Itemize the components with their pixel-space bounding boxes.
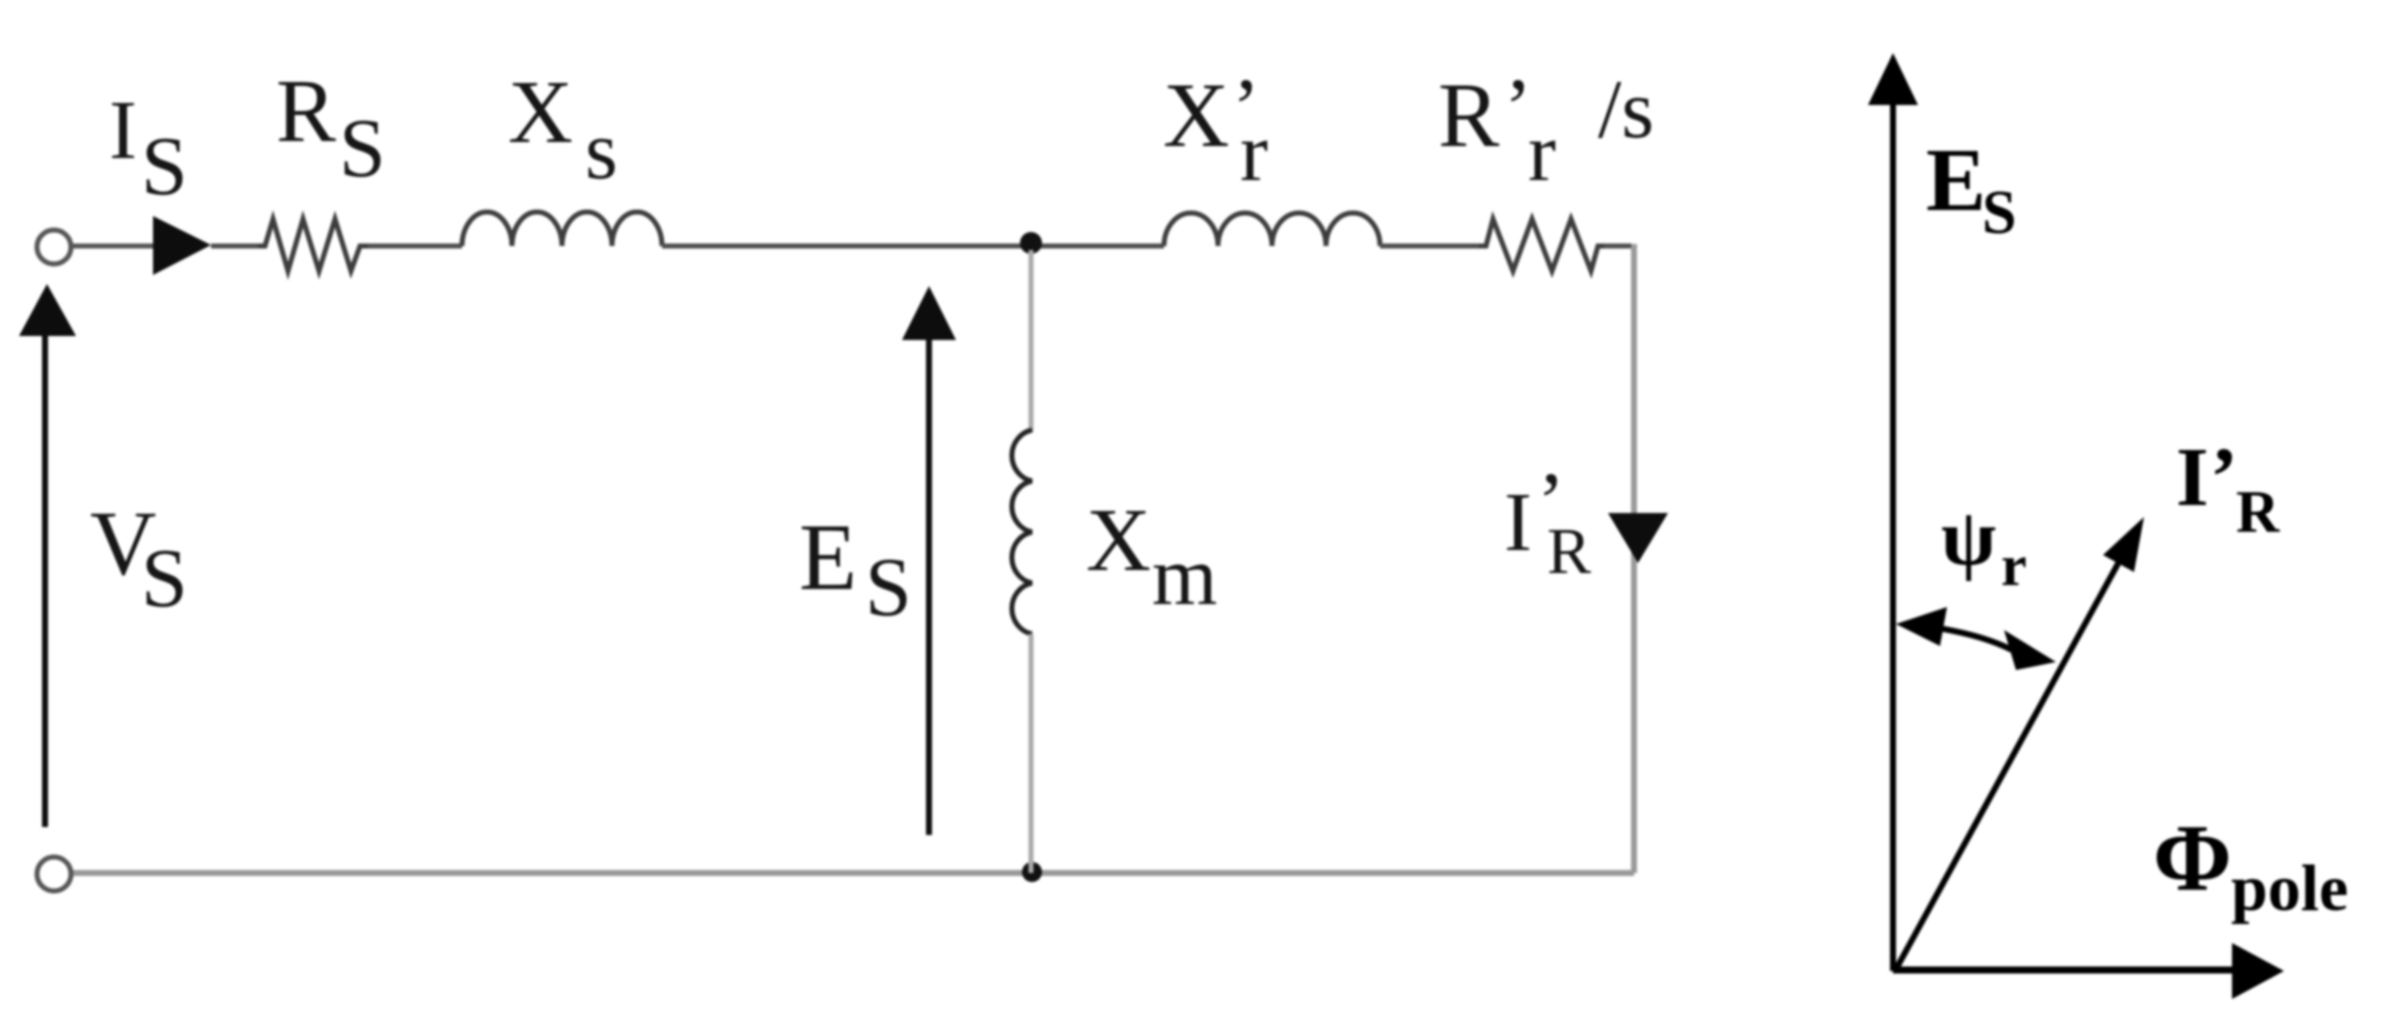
- svg-text:R: R: [2236, 479, 2280, 545]
- svg-text:S: S: [141, 120, 188, 213]
- svg-text:/s: /s: [1598, 63, 1654, 156]
- svg-text:R: R: [1438, 64, 1500, 166]
- svg-text:Φ: Φ: [2153, 805, 2232, 911]
- svg-text:S: S: [1982, 179, 2016, 247]
- svg-text:R: R: [1547, 515, 1591, 588]
- svg-text:E: E: [1926, 131, 1986, 230]
- svg-text:I: I: [109, 84, 137, 177]
- svg-text:m: m: [1152, 530, 1217, 623]
- svg-text:I: I: [1504, 476, 1532, 569]
- svg-text:X: X: [508, 63, 573, 162]
- svg-text:X: X: [1163, 64, 1229, 166]
- svg-text:S: S: [141, 532, 188, 625]
- svg-text:I: I: [2176, 431, 2209, 524]
- svg-text:R: R: [276, 62, 336, 161]
- svg-text:s: s: [585, 104, 618, 197]
- svg-text:’: ’: [2210, 431, 2238, 524]
- svg-text:S: S: [339, 102, 386, 195]
- svg-text:r: r: [1240, 106, 1268, 199]
- svg-text:ψ: ψ: [1941, 494, 1996, 582]
- svg-text:E: E: [799, 504, 857, 610]
- svg-text:S: S: [865, 541, 912, 634]
- svg-text:X: X: [1086, 491, 1151, 590]
- svg-text:r: r: [2001, 533, 2027, 598]
- svg-text:r: r: [1528, 106, 1556, 199]
- svg-text:pole: pole: [2231, 852, 2348, 925]
